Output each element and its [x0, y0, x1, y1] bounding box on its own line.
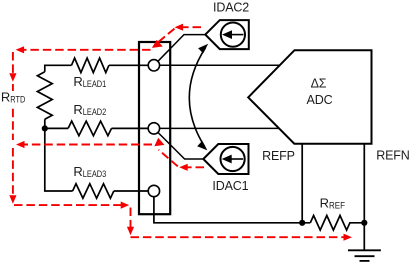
- wire mux pin3 down to RREF rail: [154, 197, 310, 223]
- wire mux pin2 diagonal to IDAC1: [158, 132, 203, 159]
- mux box: [139, 42, 170, 214]
- label RRTD (white bg over red line): [0, 91, 29, 105]
- svg-text:ΔΣ: ΔΣ: [311, 77, 327, 91]
- resistor RLEAD3 zigzag: [73, 184, 114, 199]
- mux pin circle 1: [148, 60, 159, 71]
- resistor RLEAD2 zigzag: [68, 121, 111, 136]
- svg-text:REFP: REFP: [262, 149, 295, 163]
- wire mux pin2 to ADC AIN2: [160, 127, 280, 129]
- svg-text:REFN: REFN: [376, 148, 409, 162]
- curved swap arrow between IDACs: [189, 48, 205, 147]
- red dashed current path: IDAC2 branch top: [13, 27, 348, 237]
- wire mux pin1 to ADC AIN1: [160, 64, 281, 66]
- svg-text:IDAC2: IDAC2: [213, 0, 249, 14]
- mux pin circle 2: [148, 123, 159, 134]
- wire row2: junction to RLEAD2: [45, 127, 68, 129]
- red arrowheads: [9, 24, 352, 241]
- node junction dot REFP: [299, 220, 305, 226]
- resistor RREF zigzag: [310, 216, 364, 231]
- wire mux pin1 diagonal to IDAC2: [158, 35, 205, 62]
- svg-text:ADC: ADC: [307, 93, 333, 107]
- wire junction down to row3: [45, 128, 73, 191]
- wire REFP pin down: [301, 144, 303, 223]
- wire RLEAD1 to mux pin1: [109, 64, 148, 66]
- resistor RLEAD1 zigzag: [72, 58, 109, 73]
- op-amp ADC block pentagon: [248, 50, 371, 144]
- node junction dot RTD bottom: [42, 125, 48, 131]
- red dashed current path: IDAC1 branch: [21, 145, 205, 168]
- IDAC2 symbol: [205, 20, 249, 49]
- wire RTD bottom to junction: [44, 119, 46, 128]
- mux pin circle 3: [148, 185, 159, 196]
- IDAC1 symbol: [203, 144, 248, 174]
- wire row1 left: RTD top to R_LEAD1: [45, 65, 72, 72]
- wire REFN pin down to ground: [363, 144, 365, 251]
- svg-text:IDAC1: IDAC1: [212, 179, 248, 193]
- ground: [348, 250, 381, 261]
- node junction dot REFN: [361, 220, 367, 226]
- wire RLEAD3 to mux pin3: [114, 190, 148, 192]
- wire RLEAD2 to mux pin2: [112, 127, 149, 129]
- resistor RRTD zigzag: [37, 72, 52, 119]
